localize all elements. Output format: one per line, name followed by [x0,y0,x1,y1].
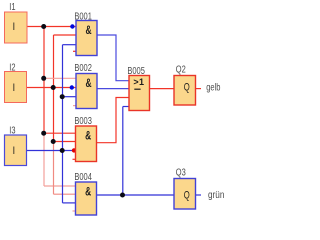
svg-text:&: & [86,25,92,38]
svg-text:Q2: Q2 [176,64,186,75]
svg-text:Q: Q [184,81,190,94]
svg-text:I3: I3 [9,124,15,135]
svg-text:B002: B002 [74,62,92,73]
svg-text:&: & [85,186,91,199]
svg-text:I1: I1 [9,1,15,12]
svg-text:B005: B005 [127,65,145,76]
svg-text:&: & [85,130,91,143]
svg-text:I: I [13,21,15,33]
svg-text:B003: B003 [74,115,92,126]
svg-text:gelb: gelb [206,81,220,92]
svg-text:B001: B001 [74,10,92,21]
svg-text:I2: I2 [9,61,15,72]
svg-text:>1: >1 [133,77,144,87]
svg-text:B004: B004 [74,171,92,182]
svg-text:Q3: Q3 [176,167,186,178]
svg-text:I: I [13,82,15,94]
svg-text:grün: grün [208,189,224,200]
svg-text:&: & [86,78,92,91]
svg-text:I: I [13,145,15,157]
svg-text:Q: Q [184,189,190,202]
